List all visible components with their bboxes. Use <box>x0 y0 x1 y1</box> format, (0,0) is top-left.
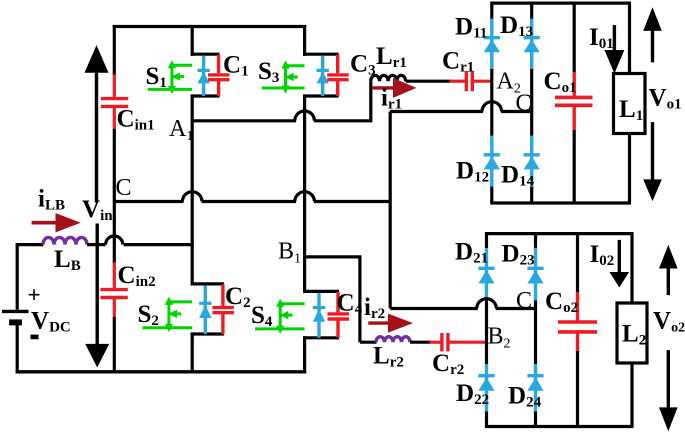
capacitor C2 <box>212 284 234 334</box>
annotation Vo1 arrow down <box>643 122 662 201</box>
wire C to link vertical <box>314 200 390 203</box>
wire Lr2 to Cr2 <box>410 341 431 344</box>
svg-text:ir2: ir2 <box>364 294 385 322</box>
wire load2 top <box>630 234 633 304</box>
diode D22 <box>478 364 494 412</box>
svg-text:VDC: VDC <box>31 308 71 336</box>
wire hump over leg2 (A1 wire) <box>295 111 315 121</box>
annotation Vo1 arrow up <box>643 7 662 62</box>
svg-text:C3: C3 <box>350 51 376 79</box>
svg-text:D13: D13 <box>500 12 533 40</box>
label - <box>31 335 39 340</box>
diode D21 <box>478 248 494 301</box>
diode D24 <box>527 364 543 412</box>
svg-text:C1: C1 <box>223 51 249 79</box>
diode D12 <box>484 136 500 187</box>
diode D23 <box>527 248 543 301</box>
annotation Vin arrow up <box>85 45 109 203</box>
current arrow ir2 <box>368 314 413 333</box>
svg-text:Cin2: Cin2 <box>118 262 156 290</box>
wire hump over v1 (rect2 C wire) <box>477 299 497 309</box>
current arrow I02 <box>610 240 630 288</box>
box S1 bottom edge <box>191 94 220 97</box>
body diode of S1 <box>197 56 209 96</box>
wire bottom rail <box>16 370 307 373</box>
box S3 bottom edge <box>303 94 339 97</box>
svg-text:Cr1: Cr1 <box>442 48 474 76</box>
capacitor Cr1 <box>450 71 492 91</box>
svg-text:I02: I02 <box>590 241 615 269</box>
diode D14 <box>524 136 540 187</box>
wire rect2 bottom rail <box>485 425 634 428</box>
switch S2 (MOSFET) <box>143 298 193 331</box>
current arrow iLB <box>32 213 81 232</box>
wire A1 node horizontal <box>192 119 296 122</box>
wire leg1 top <box>191 25 194 56</box>
svg-text:S1: S1 <box>146 63 167 91</box>
svg-text:D21: D21 <box>455 239 488 267</box>
svg-text:Lr2: Lr2 <box>373 343 404 371</box>
inductor LB coil <box>43 237 87 244</box>
wire leg2 top <box>303 25 306 56</box>
inductor Lr2 coil <box>376 337 410 343</box>
annotation Vin arrow down <box>85 224 109 368</box>
switch S4 (MOSFET) <box>255 300 305 333</box>
svg-text:Cr2: Cr2 <box>432 350 464 378</box>
svg-text:Vo2: Vo2 <box>653 308 685 336</box>
svg-text:Cin1: Cin1 <box>117 106 155 134</box>
wire rect2 C node <box>496 307 536 310</box>
annotation Vo2 arrow down <box>659 350 678 431</box>
wire rect2 v1 segments <box>485 234 488 427</box>
svg-text:D11: D11 <box>455 13 487 41</box>
wire C link vertical <box>389 112 392 309</box>
svg-text:S2: S2 <box>138 301 159 329</box>
svg-text:B1: B1 <box>278 239 301 267</box>
wire rect2 top rail <box>485 232 634 235</box>
capacitor C4 <box>328 292 350 338</box>
svg-text:Vin: Vin <box>82 196 113 224</box>
wire input rail upper black <box>113 25 116 76</box>
wire load1 top <box>628 3 631 74</box>
capacitor Co1 <box>555 3 593 203</box>
box S4 top edge <box>303 290 339 293</box>
switch S3 (MOSFET) <box>262 62 305 93</box>
svg-text:iLB: iLB <box>38 186 65 214</box>
svg-text:L2: L2 <box>622 321 646 349</box>
diode D11 <box>484 19 500 69</box>
diode D13 <box>524 19 540 69</box>
wire rect1 v2 segments <box>530 3 533 203</box>
svg-text:L1: L1 <box>619 96 643 124</box>
wire top rail <box>113 25 306 28</box>
wire Lr1 to Cr1 <box>406 80 451 83</box>
box S4 bottom edge <box>303 336 339 339</box>
body diode of S2 <box>199 285 211 334</box>
wire link to rect2 C <box>390 307 478 310</box>
wire leg1 middle <box>191 95 194 286</box>
capacitor Co2 <box>558 234 597 427</box>
box S1 top edge <box>191 53 220 56</box>
capacitor Cr2 <box>430 333 487 351</box>
svg-text:+: + <box>28 283 41 308</box>
svg-text:S4: S4 <box>251 302 273 330</box>
box S3 top edge <box>303 53 339 56</box>
capacitor Cin1 <box>101 74 128 128</box>
svg-text:LB: LB <box>54 246 81 274</box>
wire battery top <box>16 243 19 310</box>
wire rect1 v1 segments <box>490 3 493 203</box>
wire hump over v1 (rect1 C wire) <box>482 102 502 112</box>
wire leg2 middle <box>303 95 306 293</box>
load L1 box <box>614 74 646 134</box>
capacitor Cin2 <box>100 262 127 317</box>
svg-text:S3: S3 <box>258 58 279 86</box>
svg-text:D23: D23 <box>502 241 535 269</box>
capacitor C3 <box>327 55 349 97</box>
wire hump over input rail <box>106 236 123 245</box>
svg-text:Co2: Co2 <box>545 288 578 316</box>
wire rect1 top rail <box>490 1 631 4</box>
current arrow I01 <box>604 25 624 73</box>
wire leg2 bottom <box>303 336 306 373</box>
svg-text:Co1: Co1 <box>544 68 577 96</box>
wire load1 bottom <box>628 134 631 204</box>
wire LB left <box>16 243 44 246</box>
wire A1 to Lr1 riser <box>314 81 371 121</box>
annotation Vo2 arrow up <box>659 245 678 295</box>
wire B1 node horizontal <box>305 257 360 342</box>
svg-text:C: C <box>116 175 132 201</box>
wire LB to leg1 <box>124 243 194 246</box>
svg-text:C: C <box>516 90 532 116</box>
battery VDC negative plate <box>9 319 22 325</box>
box S2 bottom edge <box>191 332 224 335</box>
wire C node horizontal <box>114 200 183 203</box>
svg-text:I01: I01 <box>589 24 614 52</box>
svg-text:D12: D12 <box>456 157 489 185</box>
wire rect1 bottom rail <box>490 201 631 204</box>
svg-text:C: C <box>516 288 532 314</box>
wire rect1 C node <box>501 110 532 113</box>
wire leg1 bottom <box>191 333 194 374</box>
body diode of S3 <box>317 56 329 96</box>
svg-text:B2: B2 <box>488 324 511 352</box>
wire LB right <box>87 243 106 246</box>
wire load2 bottom <box>630 363 633 427</box>
wire hump over leg1 (C wire) <box>182 192 202 202</box>
wire B1 to Lr2 <box>360 341 377 344</box>
wire input rail lower black <box>113 317 116 373</box>
inductor Lr1 coil <box>371 75 406 81</box>
svg-text:Lr1: Lr1 <box>376 43 407 71</box>
svg-text:C2: C2 <box>225 283 251 311</box>
svg-text:Vo1: Vo1 <box>649 85 682 113</box>
wire hump over leg2 (C wire) <box>295 192 315 202</box>
battery VDC positive plate <box>2 310 29 313</box>
body diode of S4 <box>313 293 325 338</box>
wire battery bottom <box>16 322 19 373</box>
switch S1 (MOSFET) <box>148 61 193 93</box>
wire C mid segment <box>202 200 296 203</box>
wire link to rect1 C <box>390 110 483 113</box>
wire input rail middle black <box>113 129 116 264</box>
current arrow ir1 <box>372 78 417 98</box>
capacitor C1 <box>208 55 230 97</box>
box S2 top edge <box>191 282 224 285</box>
svg-text:A1: A1 <box>169 116 193 144</box>
wire rect2 v2 segments <box>534 234 537 427</box>
load L2 box <box>617 303 647 363</box>
